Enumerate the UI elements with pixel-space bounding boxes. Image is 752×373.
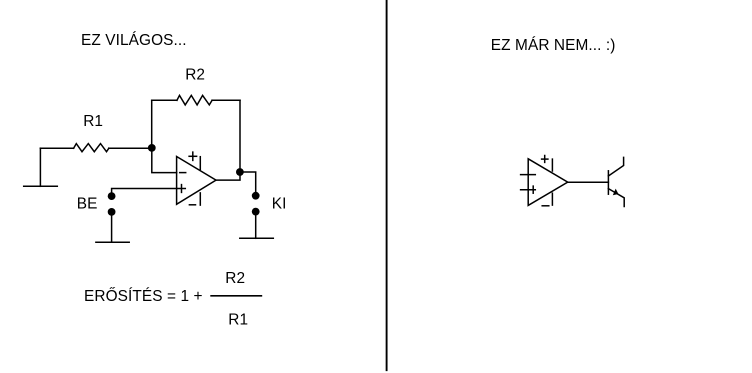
svg-text:R1: R1 [83, 113, 103, 130]
svg-text:R1: R1 [228, 312, 248, 329]
Q1 collector [608, 157, 623, 176]
wire feedback left vertical (node A up) [151, 100, 153, 148]
wire feedback top left segment [152, 99, 177, 101]
svg-text:R2: R2 [225, 270, 245, 287]
node KI ground terminal [252, 208, 260, 216]
op-amp U2 [521, 156, 568, 206]
ground (KI reference) [240, 237, 273, 239]
node KI signal terminal [252, 192, 260, 200]
svg-text:EZ MÁR NEM... :): EZ MÁR NEM... :) [491, 37, 616, 54]
ground (BE reference) [96, 241, 129, 243]
transistor Q1 [608, 157, 624, 206]
svg-text:ERŐSÍTÉS = 1 +: ERŐSÍTÉS = 1 + [84, 288, 203, 305]
node A (junction R1/R2/inverting input) [148, 144, 156, 152]
Q1 emitter arrow [613, 189, 619, 196]
U2 non-inverting input stub [521, 189, 536, 191]
wire left ground drop [39, 148, 41, 186]
wire feedback right vertical (down to node B) [239, 100, 241, 172]
U1 inverting input mark [180, 172, 186, 174]
resistor R2 [177, 95, 212, 105]
wire KI terminal ground drop [255, 212, 257, 239]
wire node B to KI [240, 172, 256, 196]
wire feedback top right segment [212, 99, 240, 101]
wire BE terminal ground drop [111, 212, 113, 242]
wire node A to inverting input [152, 148, 177, 173]
U2 plus supply mark [542, 158, 548, 160]
svg-text:R2: R2 [185, 67, 205, 84]
U1 plus supply pin [199, 157, 201, 170]
U1 minus supply pin [199, 193, 201, 205]
U1 minus supply mark [189, 204, 195, 206]
node B (output junction) [236, 168, 244, 176]
U2 minus supply pin [551, 193, 553, 205]
U1 non-inverting input mark [178, 188, 186, 190]
wire U2 output to transistor base [568, 181, 609, 183]
svg-text:EZ VILÁGOS...: EZ VILÁGOS... [81, 32, 187, 49]
wire R1 left lead [40, 147, 73, 149]
divider line [386, 0, 388, 370]
wire R1 right lead to node A [109, 147, 152, 149]
node BE ground terminal [108, 208, 116, 216]
Q1 base bar [607, 171, 609, 194]
op-amp U1 [177, 152, 216, 205]
fraction bar [211, 295, 261, 297]
Q1 emitter [608, 189, 624, 207]
U2 minus supply mark [542, 205, 549, 207]
U2 plus supply pin [551, 159, 553, 171]
svg-text:KI: KI [272, 195, 287, 212]
wire op-amp output [216, 172, 240, 180]
U1 plus supply mark [189, 155, 197, 157]
U2 inverting input stub [521, 174, 536, 176]
svg-text:BE: BE [77, 196, 98, 213]
node BE signal terminal [108, 192, 116, 200]
wire BE to non-inverting input [112, 189, 177, 197]
ground (left input reference) [24, 185, 58, 187]
resistor R1 [74, 144, 109, 152]
